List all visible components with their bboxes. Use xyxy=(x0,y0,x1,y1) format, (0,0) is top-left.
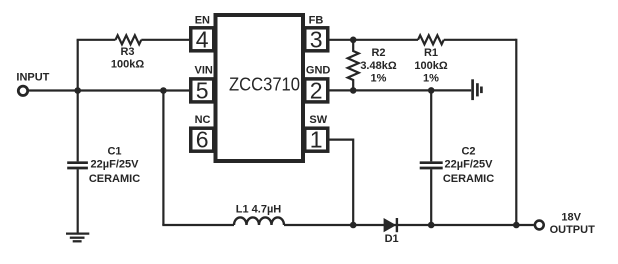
svg-text:3: 3 xyxy=(310,26,323,52)
svg-text:GND: GND xyxy=(306,64,331,76)
svg-text:22µF/25V: 22µF/25V xyxy=(91,159,140,171)
diode D1 xyxy=(384,218,397,232)
capacitor C1 xyxy=(67,163,88,168)
node: junction GND / C2 top xyxy=(428,87,435,94)
svg-text:D1: D1 xyxy=(385,233,399,245)
svg-text:1%: 1% xyxy=(423,73,439,85)
wire: input line from INPUT terminal to pin 5 (VIN) xyxy=(27,89,190,91)
wire: C1 branch from input line down to C1 top plate xyxy=(77,91,79,162)
svg-text:L1 4.7µH: L1 4.7µH xyxy=(236,204,282,216)
svg-text:CERAMIC: CERAMIC xyxy=(89,173,140,185)
pin 4 box (EN) xyxy=(191,28,214,51)
wire: right rail vertical xyxy=(515,39,517,225)
node: junction C2 / bottom rail xyxy=(428,222,435,229)
svg-text:NC: NC xyxy=(195,114,211,126)
svg-text:100kΩ: 100kΩ xyxy=(111,59,144,71)
terminal: INPUT xyxy=(18,86,27,95)
wire: R3 row right segment to pin 4 (EN) xyxy=(141,39,190,41)
svg-text:R3: R3 xyxy=(120,46,134,58)
resistor R1 xyxy=(418,35,444,44)
wire: C2 bottom plate down to bottom rail xyxy=(430,169,432,225)
wire: SW pin 1 to corner xyxy=(329,139,353,141)
pin 3 box (FB) xyxy=(305,28,328,51)
pin 5 box (VIN) xyxy=(191,79,214,102)
svg-text:R2: R2 xyxy=(371,47,385,59)
svg-text:100kΩ: 100kΩ xyxy=(414,60,447,72)
svg-text:4: 4 xyxy=(196,26,209,52)
svg-text:22µF/25V: 22µF/25V xyxy=(445,159,494,171)
ground (below C1) xyxy=(66,234,89,242)
svg-text:6: 6 xyxy=(196,127,209,153)
svg-text:VIN: VIN xyxy=(195,64,213,76)
wire: FB row from pin 3 to R1 xyxy=(328,39,418,41)
node: junction right rail / output xyxy=(513,222,520,229)
wire: C2 branch from GND row down to C2 top plate xyxy=(430,90,432,161)
svg-text:2: 2 xyxy=(310,77,323,103)
wire: vertical from input line up to R3 row xyxy=(77,40,79,91)
wire: C1 bottom plate down to ground xyxy=(77,169,79,233)
svg-text:ZCC3710: ZCC3710 xyxy=(229,74,300,95)
svg-text:1%: 1% xyxy=(371,73,387,85)
svg-text:EN: EN xyxy=(195,15,210,27)
svg-text:FB: FB xyxy=(309,15,324,27)
svg-text:OUTPUT: OUTPUT xyxy=(550,224,596,236)
node: junction VIN / bottom rail xyxy=(160,87,167,94)
node: junction input/R3/C1 xyxy=(74,87,81,94)
pin 2 box (GND) xyxy=(305,79,328,102)
inductor L1 xyxy=(234,217,284,225)
svg-text:R1: R1 xyxy=(424,47,438,59)
wire: bottom rail from L1 to output terminal xyxy=(284,224,534,226)
node: junction FB / R2 top xyxy=(350,37,357,44)
node: junction GND / R2 bottom xyxy=(350,87,357,94)
svg-text:CERAMIC: CERAMIC xyxy=(443,173,494,185)
resistor R2 (vertical) xyxy=(348,40,359,91)
resistor R3 xyxy=(116,35,142,44)
svg-text:3.48kΩ: 3.48kΩ xyxy=(360,60,397,72)
node: junction SW / bottom rail xyxy=(350,222,357,229)
pin 1 box (SW) xyxy=(305,128,328,151)
wire: FB row from R1 to right rail corner xyxy=(444,39,517,41)
ground (right, rotated) xyxy=(473,79,482,100)
svg-text:INPUT: INPUT xyxy=(16,71,49,83)
svg-text:C2: C2 xyxy=(461,145,475,157)
capacitor C2 xyxy=(420,163,443,168)
IC U1 body ZCC3710 xyxy=(216,15,304,161)
svg-text:18V: 18V xyxy=(561,212,581,224)
svg-text:5: 5 xyxy=(196,77,209,103)
terminal: OUTPUT xyxy=(535,221,544,230)
pin 6 box (NC) xyxy=(191,128,214,151)
wire: bottom rail left segment to L1 xyxy=(162,224,234,226)
wire: R3 row left segment xyxy=(77,39,116,41)
wire: vertical from VIN junction down to bottom rail xyxy=(162,91,164,226)
svg-text:C1: C1 xyxy=(107,145,121,157)
wire: GND row from pin 2 to ground symbol xyxy=(328,89,471,91)
wire: SW corner down to bottom rail xyxy=(352,139,354,226)
svg-text:1: 1 xyxy=(310,127,323,153)
svg-text:SW: SW xyxy=(309,114,327,126)
